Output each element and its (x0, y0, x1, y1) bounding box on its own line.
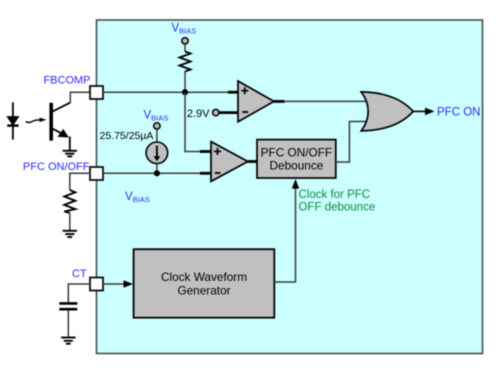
stub U2 + input (200, 150, 212, 153)
resistor R2 (64, 190, 75, 213)
U1 minus (242, 111, 248, 113)
wire pin to resistor R2 (70, 173, 90, 190)
wire capacitor to ground (67, 311, 69, 338)
wire OR output (413, 110, 426, 112)
wire generator clock to debounce (274, 188, 295, 282)
U1 plus (241, 87, 248, 94)
photodiode D1 (7, 102, 18, 139)
terminal VBIAS top (182, 38, 188, 44)
junction node FBCOMP (182, 89, 188, 95)
stub 2.9V to U1 - input (219, 111, 239, 114)
svg-text:FBCOMP: FBCOMP (43, 75, 90, 87)
junction node PFC ON/OFF (154, 170, 160, 176)
svg-text:PFC ON/OFF: PFC ON/OFF (261, 145, 332, 159)
svg-text:25.75/25µA: 25.75/25µA (100, 130, 154, 142)
wire resistor R2 to ground (69, 213, 71, 231)
pin CT (90, 278, 103, 291)
U2 output stub (248, 160, 258, 163)
wire current source to PFC ON/OFF net (156, 164, 158, 174)
capacitor C1 (59, 302, 77, 305)
wire CT to capacitor (68, 284, 90, 302)
wire resistor to junction (184, 72, 186, 93)
svg-text:Clock Waveform: Clock Waveform (161, 270, 247, 284)
wire terminal to current source (156, 129, 158, 142)
wire PFC ON/OFF net (103, 172, 211, 174)
wire CT pin to generator with arrowhead (103, 283, 125, 285)
IC boundary box (97, 20, 483, 354)
wire collector to FBCOMP pin (70, 92, 90, 103)
stub U1 + input (228, 91, 239, 94)
OR gate U3 (361, 92, 413, 131)
phototransistor Q1 (51, 103, 70, 151)
svg-text:PFC ON: PFC ON (437, 106, 480, 118)
wire debounce to OR gate (336, 122, 368, 163)
pin PFC ON/OFF (90, 167, 103, 180)
ground (R2) (63, 231, 77, 237)
svg-text:Clock for PFC: Clock for PFC (299, 189, 371, 201)
PFC ON/OFF Debounce box (257, 140, 336, 178)
ground (C1) (61, 338, 75, 344)
terminal 2.9V (213, 109, 219, 115)
terminal VBIAS middle (154, 123, 160, 129)
svg-text:Generator: Generator (177, 284, 230, 298)
svg-text:Debounce: Debounce (270, 158, 324, 172)
U1 output stub (274, 100, 285, 103)
light coupling arrow (26, 118, 47, 123)
svg-text:OFF debounce: OFF debounce (299, 202, 376, 214)
wire U1 output to OR gate (285, 100, 369, 102)
svg-text:CT: CT (72, 268, 87, 280)
wire FBCOMP net (103, 91, 238, 93)
stub U2 - input (200, 172, 212, 175)
comparator U1 (238, 81, 274, 122)
svg-text:PFC ON/OFF: PFC ON/OFF (23, 161, 90, 173)
Clock Waveform Generator box (134, 249, 275, 318)
U2 minus (215, 172, 221, 174)
pin FBCOMP (90, 86, 103, 99)
comparator U2 (211, 142, 248, 182)
current source I1 (146, 142, 168, 164)
wire junction down to comparator U2 + (185, 92, 211, 151)
svg-text:2.9V: 2.9V (187, 108, 210, 120)
wire terminal to resistor (184, 44, 186, 52)
U2 plus (214, 148, 221, 155)
ground (emitter Q1) (63, 151, 77, 157)
resistor (VBIAS pull-up) (180, 52, 191, 72)
